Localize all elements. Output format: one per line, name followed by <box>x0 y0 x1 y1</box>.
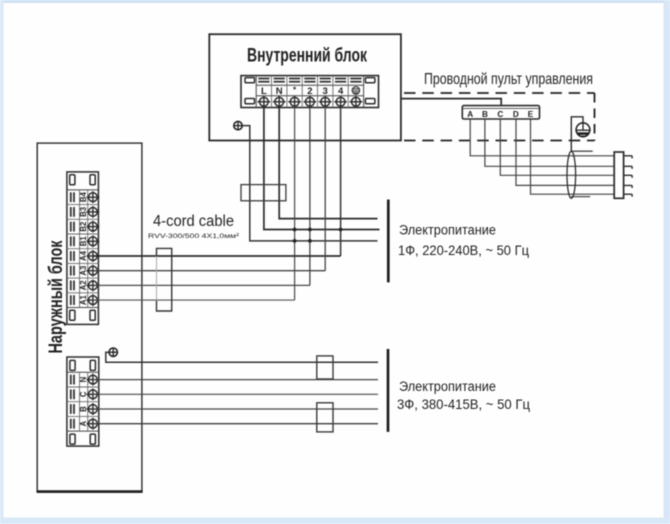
indoor terminal block TB1 <box>241 76 379 108</box>
TB3 bottom cap tabs <box>70 434 95 444</box>
page border right <box>664 0 670 524</box>
svg-text:1Ф, 220-240В, ~ 50 Гц: 1Ф, 220-240В, ~ 50 Гц <box>398 243 529 258</box>
page border bottom <box>0 518 670 524</box>
TB4 labels A B C D E <box>467 110 534 119</box>
svg-text:D: D <box>513 110 519 119</box>
svg-text:4-cord cable: 4-cord cable <box>153 213 234 230</box>
TB1 left cap tabs <box>245 78 255 104</box>
4-cord cable label <box>148 213 240 240</box>
TB2 top cap tabs <box>70 175 96 185</box>
cable wrap ellipse <box>567 151 576 198</box>
indoor unit box U1 <box>209 34 401 140</box>
svg-text:C: C <box>497 110 503 119</box>
wire A2 interconnect <box>93 284 310 286</box>
svg-text:E: E <box>528 110 534 119</box>
wire B 3ph <box>93 408 378 410</box>
wire C to cable <box>500 119 614 175</box>
wire terminal-4 down <box>340 106 342 256</box>
TB2 cell marks <box>70 192 75 305</box>
wired controller dashed box <box>404 93 595 141</box>
TB1 cell marks row <box>258 78 361 83</box>
TB3 top cap tabs <box>70 360 95 370</box>
cable connector J1 <box>614 152 632 198</box>
wire A 3ph <box>93 423 378 425</box>
TB3 cell marks <box>70 375 75 429</box>
TB2 bottom cap tabs <box>70 310 96 320</box>
svg-text:Проводной пульт управления: Проводной пульт управления <box>424 71 593 88</box>
wire terminal-2 down <box>309 106 311 285</box>
power cord sleeve on L N PE <box>241 185 286 201</box>
cable bottom outline mark <box>571 196 590 198</box>
svg-text:Электропитание: Электропитание <box>399 222 496 237</box>
TB3 terminal labels <box>79 376 88 426</box>
PE screw symbol at indoor unit <box>234 121 242 129</box>
svg-text:B: B <box>482 110 488 119</box>
wire A to cable <box>470 119 614 156</box>
svg-text:RVV-300/500 4X1,0мм²: RVV-300/500 4X1,0мм² <box>148 233 240 240</box>
wire A1 interconnect <box>93 299 295 301</box>
svg-text:L: L <box>261 86 267 97</box>
TB2 screws <box>87 191 100 306</box>
wire D to cable <box>516 119 614 185</box>
3ph sleeve lower <box>317 403 333 432</box>
wire PE outdoor to 3ph bus <box>106 352 378 362</box>
outdoor unit box U2 <box>37 143 143 492</box>
wire A3 interconnect <box>93 270 325 272</box>
TB3 screws <box>87 374 100 430</box>
page border top <box>0 0 670 3</box>
svg-text:4: 4 <box>338 86 344 97</box>
wire E to cable <box>531 119 615 194</box>
TB1 earth label icon <box>352 87 359 94</box>
svg-text:3Ф, 380-415В, ~ 50 Гц: 3Ф, 380-415В, ~ 50 Гц <box>397 397 530 412</box>
TB1 right cap tabs <box>365 78 375 104</box>
svg-text:Внутренний блок: Внутренний блок <box>247 44 367 66</box>
cable top outline mark <box>572 150 593 152</box>
wire L to 1ph bus <box>264 106 380 230</box>
wire indoor to controller <box>401 99 501 106</box>
svg-text:N: N <box>276 86 283 97</box>
wire B to cable <box>485 119 614 166</box>
wire N to 1ph bus <box>279 106 377 219</box>
wire N 3ph <box>93 379 378 381</box>
TB2 terminal labels <box>79 192 88 306</box>
controller terminal strip TB4 <box>462 106 539 119</box>
wire terminal-3 down <box>324 106 326 271</box>
outdoor terminal block TB3 <box>67 357 99 446</box>
outdoor terminal block TB2 <box>67 172 99 324</box>
svg-text:3: 3 <box>323 86 328 97</box>
TB1 terminal labels <box>261 86 344 98</box>
PE screw symbol at outdoor unit <box>109 348 117 356</box>
1ph power bus <box>387 200 390 283</box>
wire terminal-asterisk down <box>294 106 296 300</box>
svg-text:Наружный блок: Наружный блок <box>45 240 67 353</box>
wire A4 interconnect <box>93 255 341 257</box>
wire C 3ph <box>93 393 378 395</box>
4-cord cable sleeve <box>157 248 172 311</box>
page border left <box>0 0 4 524</box>
3ph power label <box>397 379 530 412</box>
svg-text:2: 2 <box>307 86 312 97</box>
1ph power label <box>398 222 529 257</box>
svg-text:Электропитание: Электропитание <box>399 379 496 394</box>
3ph sleeve upper <box>317 356 333 379</box>
junction dots on power lines <box>293 228 343 243</box>
controller earth symbol <box>571 117 590 151</box>
3ph power bus <box>387 349 390 432</box>
TB1 screws <box>258 96 363 108</box>
wire PE indoor to 1ph bus <box>242 126 377 241</box>
svg-text:A: A <box>467 110 473 119</box>
